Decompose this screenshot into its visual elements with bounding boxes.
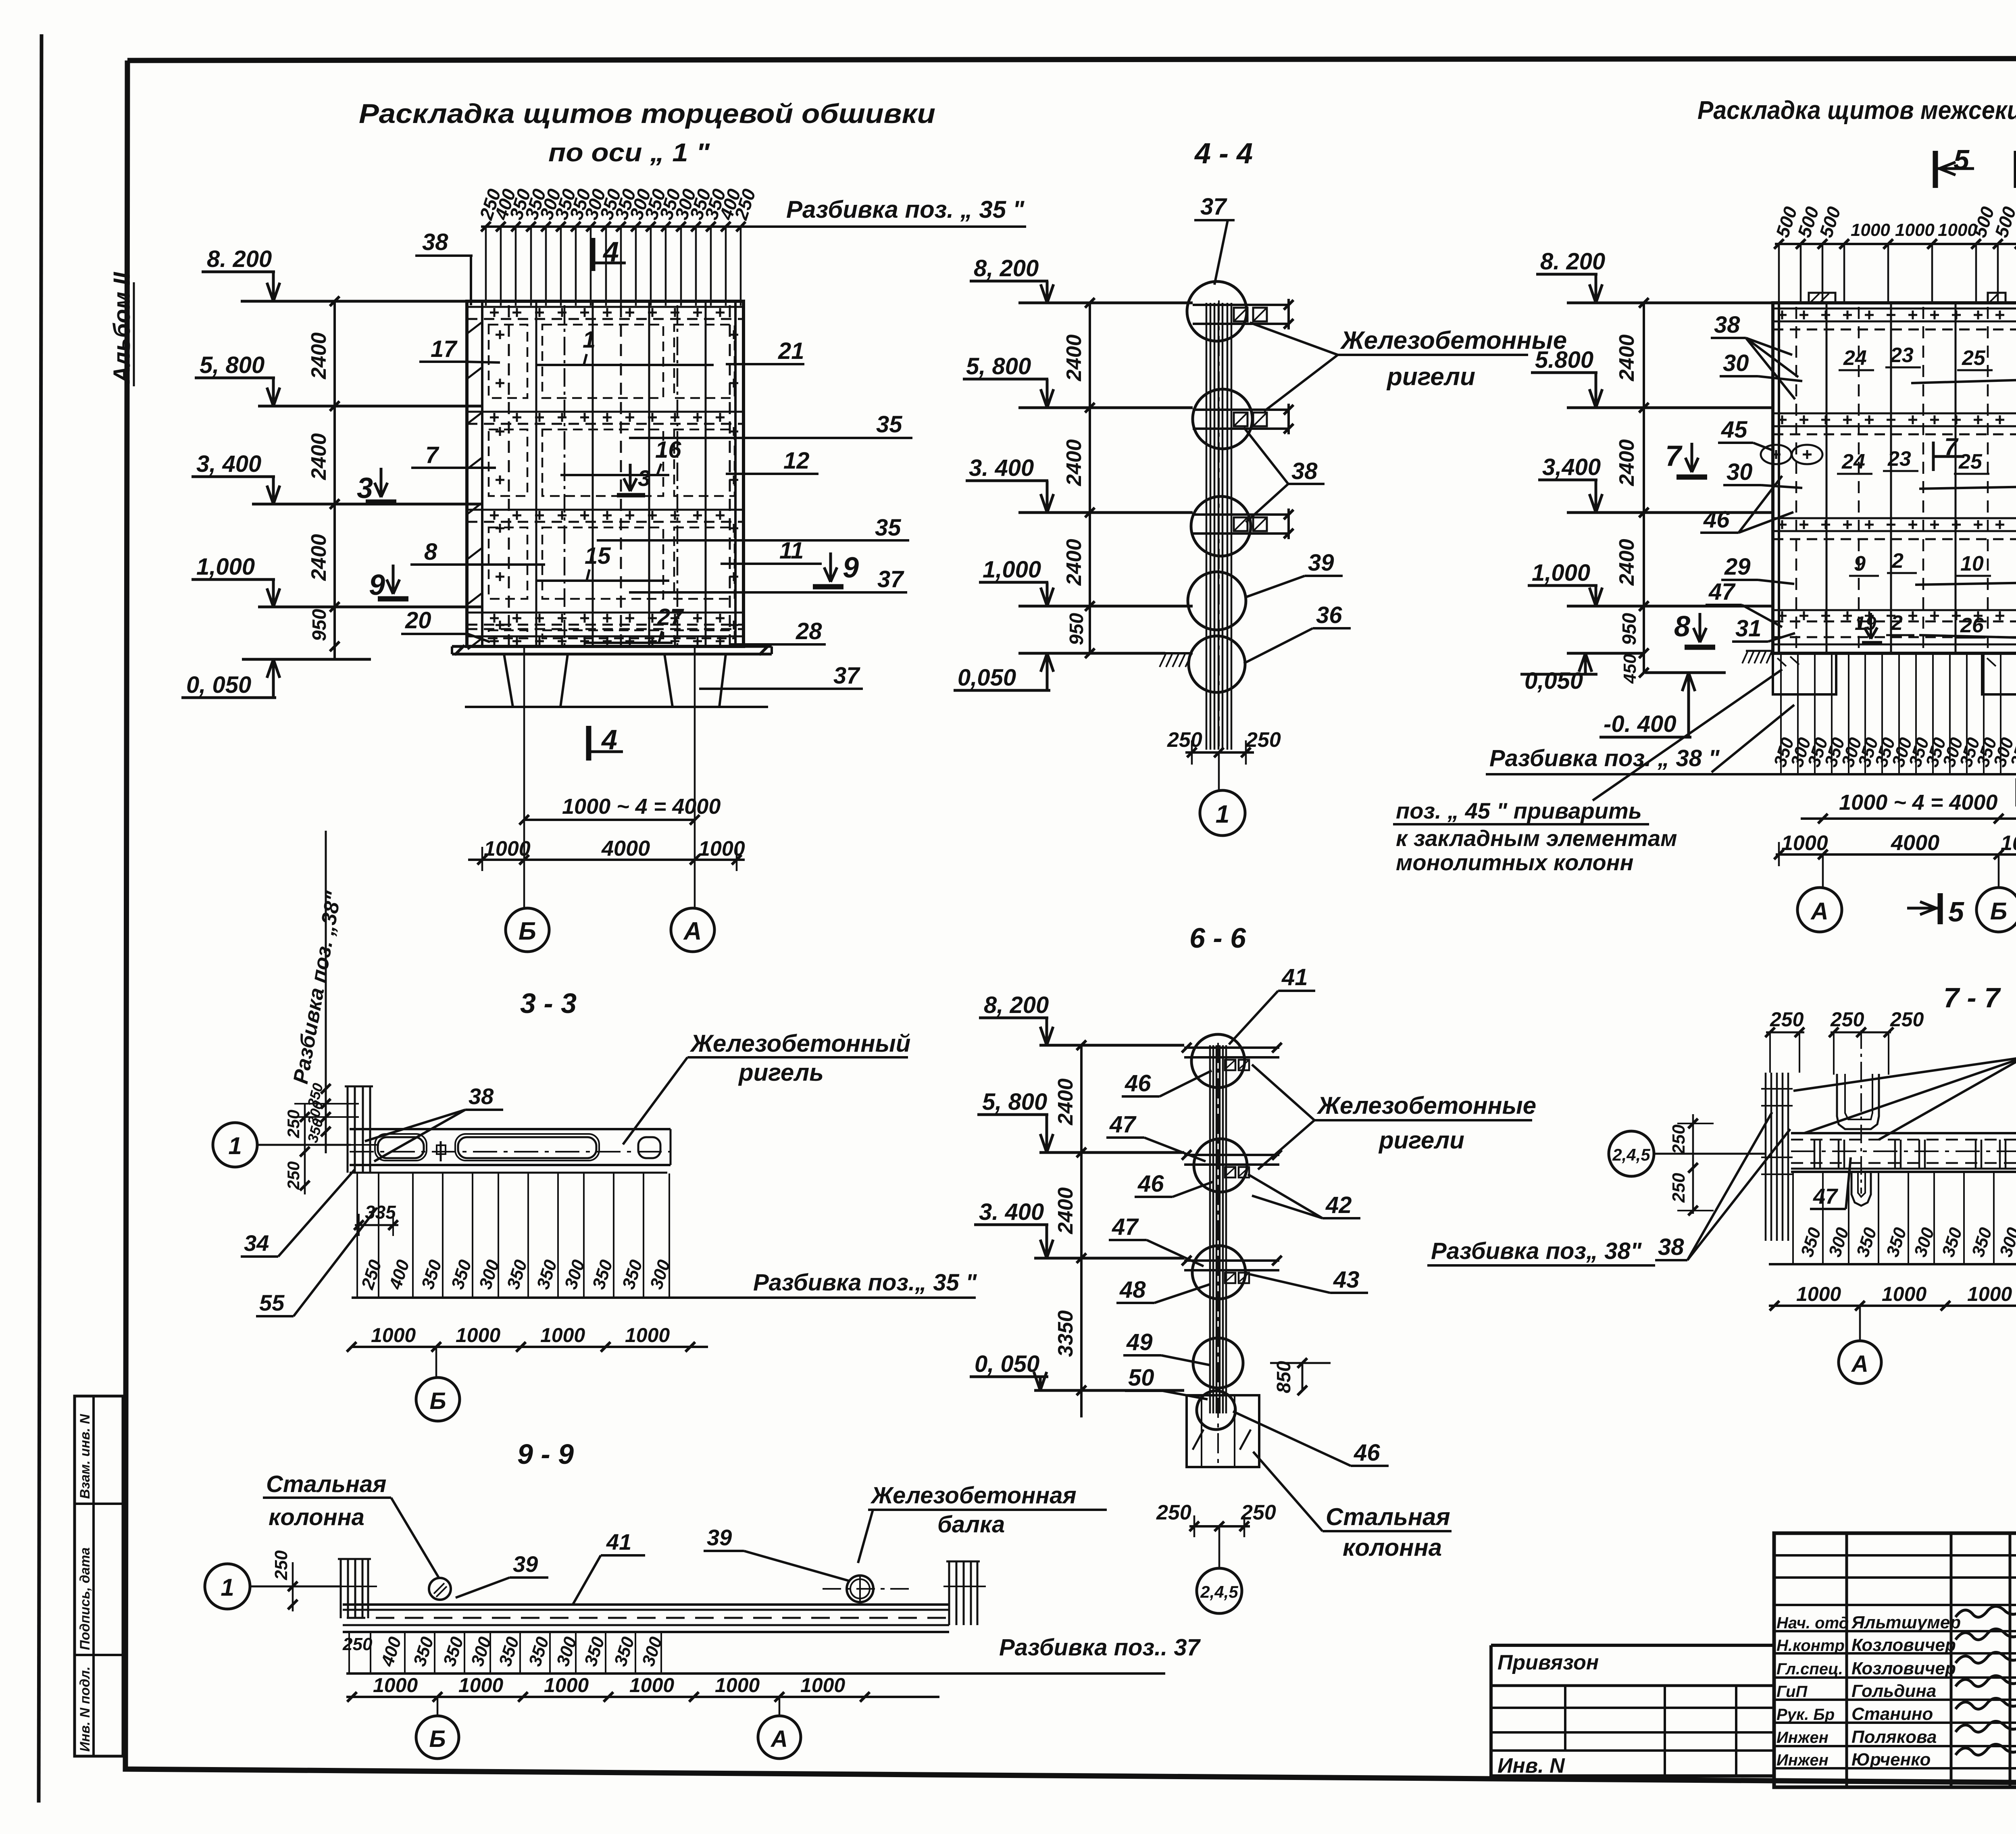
- svg-text:Альбом II: Альбом II: [109, 271, 135, 384]
- svg-text:2400: 2400: [307, 534, 331, 581]
- svg-text:6 - 6: 6 - 6: [1189, 922, 1246, 954]
- dimension row 1000x6 (9-9): [346, 1674, 939, 1702]
- svg-text:30: 30: [1723, 350, 1749, 376]
- leader 30 (view 2 row1 right): [1911, 352, 2016, 383]
- svg-text:1000: 1000: [800, 1674, 845, 1696]
- svg-text:1: 1: [583, 327, 596, 353]
- svg-text:1000: 1000: [625, 1324, 670, 1346]
- label: Разбивка поз. „35" (top): [786, 196, 1025, 223]
- section cut mark 5 (top): [1935, 144, 1974, 188]
- svg-text:Инжен: Инжен: [1776, 1751, 1829, 1769]
- svg-text:250: 250: [284, 1110, 303, 1138]
- section mark 9 (right of view 1): [813, 552, 859, 587]
- svg-text:А: А: [1810, 898, 1828, 925]
- section mark 13 inside view 1: [617, 464, 650, 495]
- svg-text:7: 7: [1944, 433, 1959, 460]
- leader 31 (view 2 left): [1732, 615, 1795, 642]
- elevation mark 5.800 (view 1): [195, 352, 482, 406]
- elevation mark 8.200 (6-6): [979, 992, 1184, 1045]
- elevation mark 1.000 (4-4): [979, 556, 1193, 606]
- svg-text:0, 050: 0, 050: [186, 672, 251, 698]
- svg-text:1000: 1000: [1796, 1283, 1841, 1305]
- svg-text:0,050: 0,050: [1524, 668, 1583, 694]
- section title 7-7: [1943, 982, 2001, 1013]
- svg-text:8, 200: 8, 200: [984, 992, 1049, 1018]
- svg-text:1000 ~ 4 = 4000: 1000 ~ 4 = 4000: [562, 794, 721, 819]
- elevation mark 8.200 (4-4): [970, 255, 1193, 303]
- svg-text:5, 800: 5, 800: [966, 353, 1031, 379]
- svg-text:Нач. отд: Нач. отд: [1776, 1614, 1849, 1632]
- svg-text:7: 7: [425, 442, 439, 468]
- leader 38 (4-4): [1244, 427, 1325, 522]
- svg-text:2400: 2400: [1615, 539, 1639, 586]
- svg-text:3,400: 3,400: [1542, 454, 1601, 480]
- steel column section circle (9-9 left): [429, 1578, 451, 1600]
- leader 38 (top left of view 1): [415, 229, 473, 305]
- rotated label Разбивка поз „38" (3-3 left): [289, 831, 346, 1089]
- svg-text:250: 250: [1830, 1008, 1864, 1031]
- svg-text:38: 38: [1714, 312, 1740, 338]
- leader 55 (3-3): [256, 1208, 377, 1316]
- svg-text:1,000: 1,000: [1532, 560, 1590, 586]
- svg-text:49: 49: [1126, 1329, 1153, 1355]
- top dimension fan 500/500/500/1000x3/500/500/500 (view 2): [1772, 204, 2016, 302]
- dimension 250|250 (4-4 bottom): [1167, 728, 1281, 765]
- svg-text:Стальная: Стальная: [266, 1471, 386, 1497]
- leader 50 (6-6, base): [1125, 1365, 1208, 1399]
- svg-text:25: 25: [1958, 450, 1983, 473]
- elevation mark 8.200 (view 1): [202, 246, 482, 301]
- svg-text:38: 38: [1291, 458, 1318, 484]
- svg-text:к закладным элементам: к закладным элементам: [1396, 825, 1677, 851]
- svg-text:17: 17: [431, 336, 458, 362]
- column (3-3): [339, 1086, 379, 1173]
- svg-text:Б: Б: [1990, 898, 2007, 925]
- leader 7: [411, 442, 496, 468]
- svg-text:монолитных колонн: монолитных колонн: [1396, 850, 1633, 875]
- label Разбивка поз „38" with 38 (6-6/7-7): [1427, 1112, 1790, 1265]
- title block: role/name rows: [1776, 1613, 1961, 1769]
- svg-text:1000: 1000: [629, 1674, 674, 1696]
- svg-text:1000 ~ 4 = 4000: 1000 ~ 4 = 4000: [1839, 790, 1997, 815]
- svg-text:41: 41: [606, 1529, 631, 1555]
- leader 17: [419, 336, 500, 363]
- svg-text:250: 250: [1770, 1008, 1804, 1031]
- axis lines of view 1 (Б and А): [524, 646, 695, 907]
- elevation mark -0.400 (view 2): [1599, 673, 1726, 737]
- svg-text:10: 10: [1960, 552, 1984, 575]
- svg-text:46: 46: [1354, 1440, 1380, 1466]
- dimension row 1000x4 (3-3): [347, 1324, 708, 1352]
- svg-text:1000: 1000: [544, 1674, 589, 1696]
- svg-text:1000: 1000: [2001, 832, 2016, 855]
- svg-text:2: 2: [1891, 549, 1904, 573]
- svg-text:47: 47: [1109, 1111, 1137, 1138]
- dimension 250/250 (3-3 left): [284, 1104, 310, 1194]
- svg-text:1000: 1000: [1938, 220, 1977, 240]
- svg-text:Инв. N: Инв. N: [1497, 1754, 1565, 1778]
- svg-text:Гольдина: Гольдина: [1851, 1681, 1936, 1701]
- leader 30 (view 2 row1 left): [1720, 350, 1802, 381]
- svg-text:50: 50: [1128, 1365, 1154, 1391]
- svg-text:1000: 1000: [1851, 220, 1890, 240]
- elevation mark 3.400 (6-6): [974, 1199, 1184, 1258]
- svg-text:29: 29: [1724, 554, 1751, 580]
- foundation block (6-6): [1187, 1395, 1259, 1467]
- svg-text:1000: 1000: [456, 1324, 500, 1346]
- svg-text:26: 26: [1960, 614, 1984, 637]
- svg-text:3. 400: 3. 400: [969, 455, 1034, 481]
- svg-text:1000: 1000: [371, 1324, 416, 1346]
- dimension 250 (7-7 top left): [1765, 1008, 1804, 1073]
- dimension 1000x4=4000 (view 2): [1801, 790, 2016, 823]
- elevation mark 5.800 (6-6): [977, 1089, 1184, 1153]
- elevation mark 0.050 (view 2): [1520, 653, 1645, 694]
- svg-text:Привязон: Привязон: [1497, 1651, 1599, 1674]
- vertical dimension chain 2400/2400/2400/950 (view 1): [307, 296, 339, 659]
- svg-text:0, 050: 0, 050: [975, 1351, 1039, 1377]
- leader 31 (view 2 right): [1919, 613, 2016, 639]
- leader 55 with fan (7-7): [1793, 1031, 2016, 1140]
- leader 47 (6-6, level 3 upper): [1109, 1214, 1204, 1266]
- leader 20: [401, 607, 490, 642]
- svg-text:Железобетонные: Железобетонные: [1316, 1092, 1536, 1119]
- svg-text:Юрченко: Юрченко: [1851, 1750, 1931, 1769]
- vertical dimension chain (4-4) 2400/2400/2400/950: [1062, 298, 1095, 658]
- label Разбивка поз. „38" (below view 2) with line: [1486, 705, 2016, 774]
- svg-text:балка: балка: [937, 1511, 1005, 1538]
- top dimension fan with Разбивка поз. 35: [475, 186, 1026, 306]
- axis circle 2,4,5 (6-6): [1197, 1526, 1242, 1613]
- panel labels row 2 (24 23 25) view 2: [1837, 447, 1989, 474]
- svg-text:39: 39: [513, 1551, 538, 1577]
- axis circle А (9-9): [758, 1697, 801, 1759]
- svg-text:31: 31: [1735, 615, 1762, 642]
- svg-text:2400: 2400: [307, 332, 331, 379]
- razbivka line (7-7): [1769, 1234, 2016, 1264]
- svg-text:21: 21: [778, 338, 804, 364]
- leader 35 (upper right): [629, 411, 912, 438]
- svg-text:ригель: ригель: [738, 1059, 824, 1086]
- svg-text:335: 335: [365, 1202, 396, 1223]
- svg-text:Разбивка поз. „ 38 ": Разбивка поз. „ 38 ": [1489, 745, 1720, 771]
- vertical dimension chain (view 2) 2400x3/950/450: [1615, 298, 1649, 684]
- svg-text:А: А: [770, 1726, 788, 1752]
- elevation mark 5.800 (4-4): [963, 353, 1193, 408]
- svg-text:1: 1: [221, 1574, 234, 1601]
- svg-text:4: 4: [602, 236, 619, 267]
- svg-text:2,4,5: 2,4,5: [1200, 1582, 1238, 1601]
- svg-text:1,000: 1,000: [196, 554, 255, 580]
- section cut mark 5 (bottom): [1907, 893, 1964, 927]
- label Стальная колонна (9-9): [263, 1471, 439, 1578]
- foundation slab below view 1: [452, 645, 772, 707]
- beam (9-9): [343, 1605, 949, 1632]
- leader 47 (6-6, level 2 upper): [1106, 1111, 1206, 1161]
- svg-text:2400: 2400: [1062, 539, 1086, 586]
- svg-text:5, 800: 5, 800: [200, 352, 264, 378]
- svg-text:250: 250: [284, 1161, 303, 1190]
- right column (9-9): [943, 1561, 986, 1625]
- steel column section circle-cross (9-9 right): [823, 1575, 911, 1603]
- leader 43 (6-6): [1250, 1267, 1368, 1293]
- svg-text:38: 38: [1658, 1234, 1684, 1260]
- section title 3-3: [520, 988, 577, 1019]
- elevation mark 5.800 (view 2): [1531, 347, 1773, 408]
- svg-text:Полякова: Полякова: [1851, 1727, 1937, 1747]
- leader 41 (9-9): [573, 1529, 645, 1605]
- svg-text:1000: 1000: [715, 1674, 760, 1696]
- svg-text:ГиП: ГиП: [1776, 1683, 1808, 1701]
- leader 38 with fan (view 2): [1711, 312, 1798, 399]
- panel labels row 3 (9 2 10) view 2: [1849, 549, 1991, 576]
- svg-text:колонна: колонна: [269, 1504, 364, 1530]
- svg-text:1: 1: [1216, 800, 1229, 828]
- svg-text:Железобетонная: Железобетонная: [870, 1482, 1077, 1509]
- svg-text:1: 1: [228, 1132, 242, 1159]
- svg-text:16: 16: [655, 437, 681, 463]
- svg-text:37: 37: [877, 566, 904, 592]
- label Железобетонный ригель (3-3): [623, 1030, 910, 1144]
- svg-text:А: А: [683, 917, 702, 945]
- svg-text:Разбивка поз.„ 35 ": Разбивка поз.„ 35 ": [753, 1269, 977, 1296]
- svg-text:Б: Б: [429, 1388, 446, 1414]
- svg-text:5, 800: 5, 800: [982, 1089, 1047, 1115]
- view title: Раскладка щитов торцевой обшивки: [359, 98, 935, 167]
- svg-text:37: 37: [833, 663, 860, 689]
- left column (7-7): [1761, 1073, 1793, 1241]
- elevation mark 1.000 (view 2): [1528, 560, 1773, 606]
- svg-text:Взам. инв. N: Взам. инв. N: [77, 1413, 93, 1499]
- dimension row 1000/4000/1000 (view 1): [468, 836, 745, 871]
- svg-text:250: 250: [1890, 1008, 1924, 1031]
- svg-text:9: 9: [1854, 552, 1866, 575]
- svg-text:24: 24: [1841, 450, 1865, 473]
- margin vertical text: Альбом II: [109, 271, 135, 386]
- svg-text:2: 2: [1891, 611, 1903, 635]
- leader 36 (4-4): [1244, 602, 1351, 663]
- razbivka line with label Разбивка поз „35" (3-3): [352, 1269, 977, 1298]
- panel labels row 1 (24 23 25) view 2: [1839, 344, 1993, 370]
- leader 42 (6-6): [1248, 1174, 1360, 1218]
- svg-text:2,4,5: 2,4,5: [1612, 1145, 1650, 1164]
- svg-text:2400: 2400: [1054, 1187, 1077, 1234]
- svg-text:1000: 1000: [458, 1674, 503, 1696]
- bottom dimension fan (9-9): [342, 1633, 666, 1674]
- note: поз. „45" приварить к закладным элементам монолитных колонн: [1393, 669, 1782, 875]
- column of section 6-6: [1210, 1043, 1226, 1468]
- svg-text:2400: 2400: [1062, 439, 1086, 486]
- view 2 panel grid structure: [1773, 293, 2016, 653]
- column of section 4-4: [1206, 300, 1231, 752]
- svg-text:450: 450: [1620, 654, 1640, 684]
- axis circle А (7-7): [1839, 1306, 1881, 1384]
- svg-text:7 - 7: 7 - 7: [1943, 982, 2001, 1013]
- svg-text:по оси „ 1 ": по оси „ 1 ": [548, 138, 710, 167]
- svg-text:Б: Б: [429, 1726, 446, 1752]
- svg-text:47: 47: [1112, 1214, 1139, 1240]
- foundation pedestals below slab: [504, 654, 726, 707]
- Привязон sub-table: [1491, 1645, 1774, 1778]
- razbivka line with label Разбивка поз..37 (9-9): [346, 1634, 1201, 1674]
- leader 28: [729, 618, 826, 644]
- svg-text:-0. 400: -0. 400: [1604, 711, 1677, 737]
- svg-text:Козловичер: Козловичер: [1851, 1659, 1956, 1678]
- leader 15: [536, 543, 669, 581]
- elevation mark 3.400 (4-4): [966, 455, 1193, 513]
- svg-text:250: 250: [1669, 1124, 1689, 1155]
- section mark 8 (view 2 left): [1674, 611, 1715, 647]
- svg-text:2400: 2400: [1615, 439, 1639, 486]
- beam stubs with ригель sections (6-6): [1182, 1043, 1282, 1283]
- svg-text:Разбивка поз„ 38": Разбивка поз„ 38": [1431, 1238, 1642, 1264]
- dimension 250|250 (6-6): [1156, 1501, 1276, 1537]
- svg-text:А: А: [1851, 1351, 1868, 1377]
- svg-text:47: 47: [1813, 1184, 1839, 1209]
- svg-text:3. 400: 3. 400: [979, 1199, 1044, 1225]
- left column (9-9): [335, 1559, 377, 1618]
- svg-text:39: 39: [707, 1525, 732, 1550]
- svg-text:1000: 1000: [1967, 1283, 2012, 1305]
- svg-text:Козловичер: Козловичер: [1851, 1635, 1956, 1655]
- svg-text:3: 3: [638, 465, 650, 491]
- svg-text:24: 24: [1843, 346, 1867, 370]
- foundation pedestals (view 2): [1773, 653, 2016, 694]
- svg-text:1000: 1000: [698, 837, 745, 861]
- svg-text:23: 23: [1887, 447, 1911, 471]
- vertical dimension chain (6-6) 2400/2400/3350: [1054, 1040, 1086, 1417]
- leader 45 with ellipses (view 2): [1718, 417, 1822, 464]
- leader 30 (view 2 row2 left): [1723, 459, 1802, 488]
- svg-text:1000: 1000: [373, 1674, 418, 1696]
- section mark 9 (on view 1, left): [369, 565, 408, 601]
- svg-text:250: 250: [342, 1634, 373, 1654]
- svg-text:34: 34: [244, 1230, 269, 1256]
- svg-text:Разбивка поз.. 37: Разбивка поз.. 37: [999, 1634, 1201, 1661]
- bottom dimension fan (3-3): [357, 1173, 674, 1298]
- leader 49 (6-6, level 4): [1123, 1329, 1210, 1365]
- dimension 250 (9-9 left): [271, 1550, 298, 1611]
- svg-text:8: 8: [1674, 611, 1690, 643]
- svg-text:3350: 3350: [1054, 1310, 1077, 1357]
- svg-text:3 - 3: 3 - 3: [520, 988, 577, 1019]
- svg-text:1000: 1000: [1882, 1283, 1926, 1305]
- svg-text:850: 850: [1273, 1361, 1295, 1393]
- title block: signature table grid: [1774, 1533, 2016, 1787]
- label Железобетонные ригели (4-4): [1250, 323, 1567, 411]
- svg-text:950: 950: [1066, 613, 1087, 645]
- paper edge line (left): [39, 34, 42, 1803]
- svg-text:28: 28: [796, 618, 822, 644]
- beam panel (7-7): [1791, 1133, 2016, 1172]
- leader 47 (view 2): [1706, 579, 1782, 627]
- svg-text:9 - 9: 9 - 9: [517, 1438, 574, 1470]
- svg-text:20: 20: [405, 607, 431, 634]
- svg-text:ригели: ригели: [1378, 1127, 1464, 1154]
- svg-text:250: 250: [1241, 1501, 1276, 1524]
- svg-text:2400: 2400: [1615, 334, 1639, 381]
- section title 4-4: [1194, 138, 1253, 170]
- leader 29 (view 2 left): [1721, 554, 1794, 584]
- leader 47 (7-7): [1810, 1157, 1851, 1209]
- svg-text:Железобетонный: Железобетонный: [689, 1030, 910, 1057]
- svg-text:38: 38: [469, 1084, 494, 1109]
- label Железобетонные ригели (6-6): [1252, 1065, 1536, 1169]
- svg-text:23: 23: [1890, 344, 1914, 367]
- dimension 1000x4=4000 (below view 1): [519, 794, 721, 825]
- svg-text:Железобетонные: Железобетонные: [1340, 327, 1567, 354]
- leader 12: [726, 448, 818, 474]
- svg-text:Раскладка щитов торцевой об: Раскладка щитов торцевой обшивки: [359, 98, 935, 129]
- detail circles on section 4-4: [1187, 281, 1252, 692]
- section title 6-6: [1189, 922, 1246, 954]
- svg-text:27: 27: [657, 604, 684, 630]
- axis circle А (view 2): [1797, 854, 1842, 932]
- svg-text:1,000: 1,000: [983, 556, 1041, 583]
- margin stamp table (Инв.N подл / Подпись, дата / Взам. инв. N): [75, 1396, 123, 1756]
- svg-text:Подпись, дата: Подпись, дата: [77, 1547, 93, 1650]
- svg-text:15: 15: [585, 543, 611, 569]
- leader 21: [726, 338, 804, 364]
- section mark 3 (on view 1): [357, 468, 396, 504]
- svg-text:9: 9: [843, 552, 859, 584]
- leader 46 (6-6, level 1): [1122, 1070, 1212, 1096]
- svg-text:12: 12: [783, 448, 810, 474]
- svg-text:Разбивка поз. „ 35 ": Разбивка поз. „ 35 ": [786, 196, 1025, 223]
- dimension row 1000x4 (7-7): [1769, 1283, 2016, 1311]
- section mark 4 (below view 1): [589, 724, 623, 761]
- section mark 7 (view 2 left): [1665, 440, 1707, 477]
- ground hatch left/right (view 2): [1742, 651, 2016, 663]
- leader 39 (9-9 second): [704, 1525, 849, 1581]
- svg-text:41: 41: [1281, 964, 1308, 990]
- svg-text:3, 400: 3, 400: [196, 451, 261, 477]
- svg-text:Стальная: Стальная: [1326, 1503, 1450, 1530]
- svg-text:35: 35: [875, 515, 901, 541]
- svg-text:4: 4: [601, 724, 617, 755]
- svg-text:Инжен: Инжен: [1776, 1729, 1829, 1746]
- ground hatch at base (4-4): [1160, 653, 1193, 667]
- svg-text:1000: 1000: [1895, 220, 1935, 240]
- svg-text:8: 8: [424, 539, 437, 565]
- axis circle 1 (4-4): [1200, 752, 1245, 836]
- svg-text:Б: Б: [519, 917, 536, 945]
- svg-text:45: 45: [1721, 417, 1747, 443]
- elevation mark 8.200 (view 2): [1536, 248, 1773, 303]
- svg-text:950: 950: [1619, 613, 1640, 645]
- svg-text:поз. „ 45 " приварить: поз. „ 45 " приварить: [1396, 798, 1642, 823]
- dimension 250|250 (7-7 top mid): [1829, 1008, 1924, 1075]
- svg-text:47: 47: [1708, 579, 1736, 605]
- view 1 panel grid structure: [467, 301, 744, 649]
- dimension row 1000/4000/1000 (view 2): [1774, 831, 2016, 866]
- svg-text:Гл.спец.: Гл.спец.: [1776, 1660, 1843, 1678]
- bottom dimension fan (7-7): [1793, 1173, 2016, 1264]
- panel element (3-3) with openings: [350, 1129, 671, 1173]
- svg-text:2400: 2400: [307, 433, 331, 480]
- title block: signature squiggles: [1956, 1606, 2016, 1755]
- leader 46 (view 2): [1700, 476, 1793, 533]
- svg-text:4 - 4: 4 - 4: [1194, 138, 1253, 170]
- view title: Раскладка щитов межсекционной обшивки: [1697, 96, 2016, 125]
- leader 37 (bottom right): [699, 663, 863, 689]
- svg-text:35: 35: [876, 411, 902, 438]
- leader 46 (6-6 bottom): [1233, 1411, 1389, 1466]
- leader 39 (4-4): [1247, 550, 1343, 597]
- panel labels row 4 (19"8 2 26) view 2: [1855, 611, 1985, 643]
- svg-text:4000: 4000: [1891, 831, 1939, 855]
- svg-text:0,050: 0,050: [958, 665, 1016, 691]
